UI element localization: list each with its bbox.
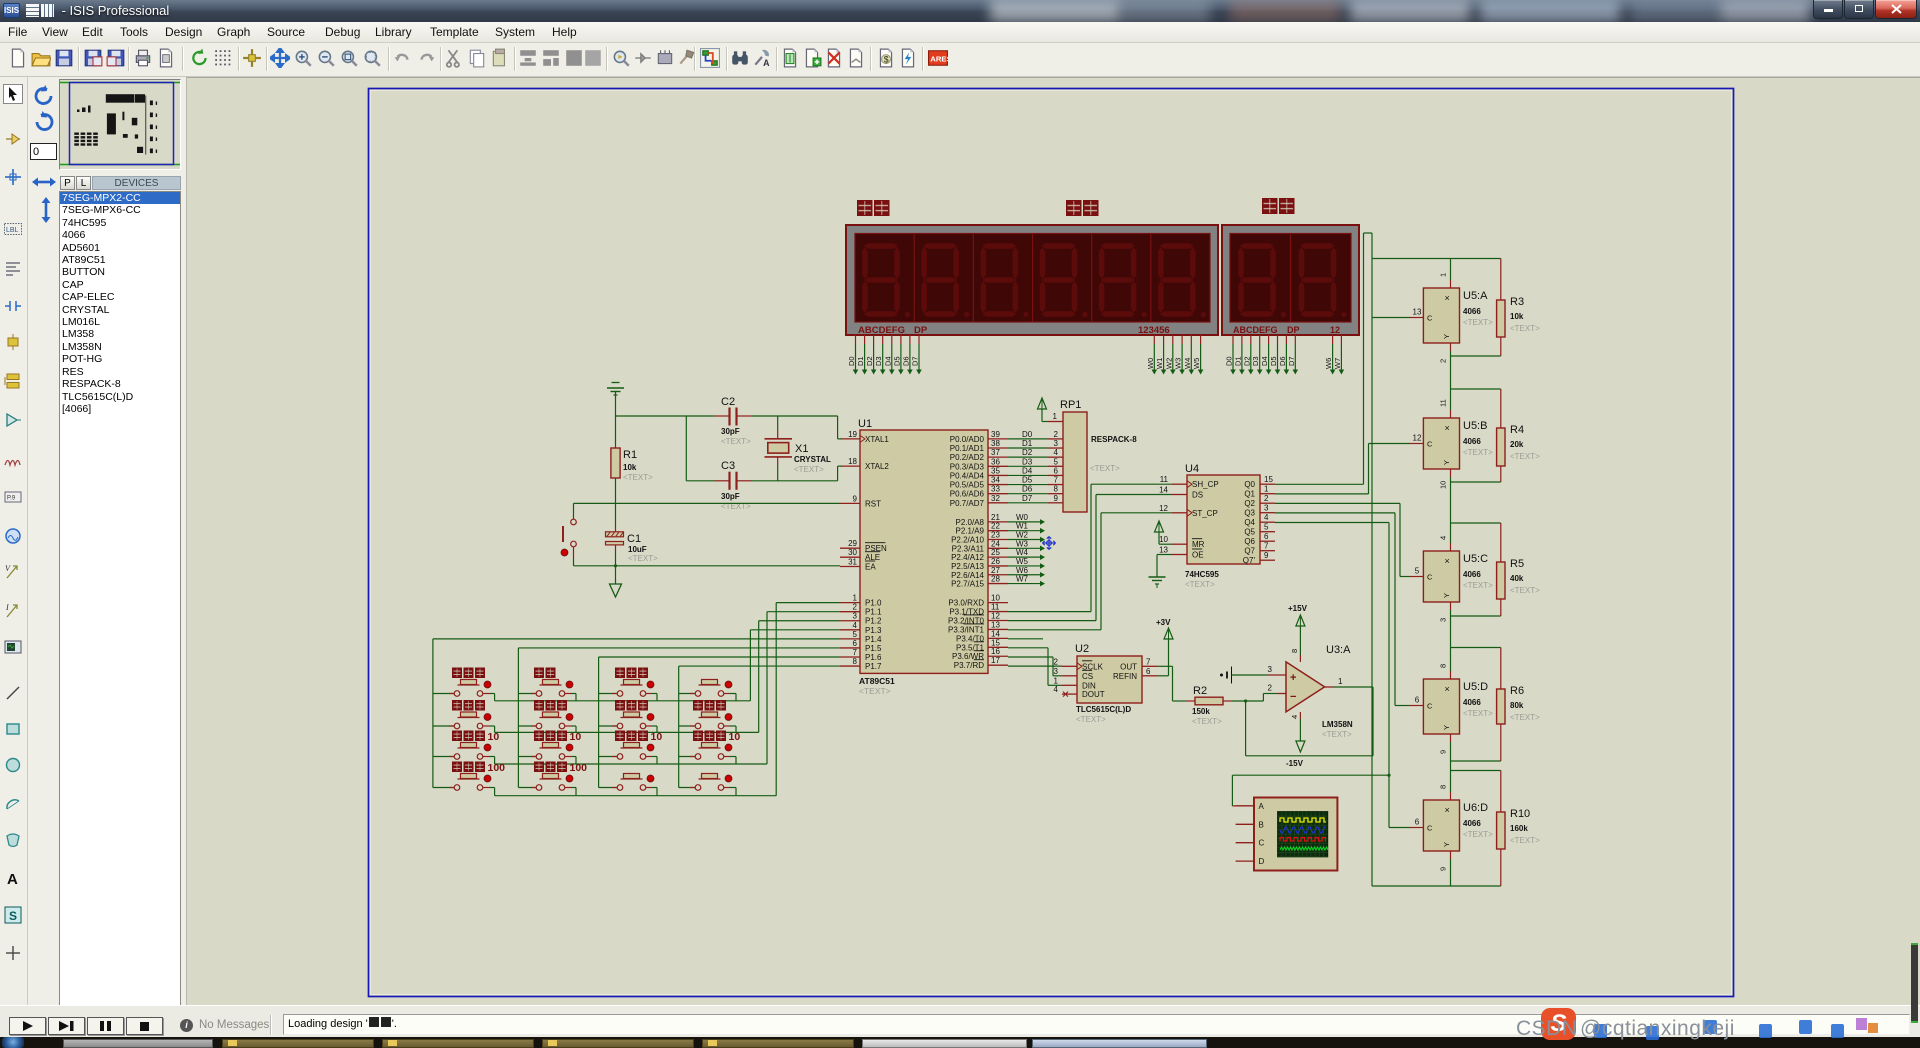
- svg-text:W0: W0: [1146, 358, 1155, 369]
- svg-text:4: 4: [853, 621, 858, 630]
- resistor R6 80k: [1500, 648, 1502, 690]
- power arrow to U4 MR: [1155, 521, 1164, 532]
- svg-text:<TEXT>: <TEXT>: [1090, 464, 1120, 473]
- svg-text:25: 25: [991, 548, 1000, 557]
- U2 pins: [1062, 665, 1077, 667]
- wire C3 to XTAL2: [751, 480, 838, 482]
- svg-text:X1: X1: [795, 443, 808, 455]
- wire U5:A to next stage: [1450, 356, 1452, 389]
- svg-text:1: 1: [1053, 412, 1058, 421]
- svg-text:D7: D7: [910, 356, 919, 366]
- svg-text:8: 8: [1439, 664, 1448, 668]
- push button row2 col4: [699, 717, 721, 719]
- push button row1 col1: [458, 684, 480, 686]
- svg-text:3: 3: [1054, 439, 1059, 448]
- P1 port wires to button matrix: [776, 602, 840, 604]
- 2-digit 7-segment display DS2 (7SEG-MPX2-CC): [1222, 225, 1359, 335]
- display DS1 digit select pins W0-W5: [1153, 335, 1155, 344]
- svg-text:U2: U2: [1075, 643, 1089, 655]
- svg-text:17: 17: [991, 656, 1000, 665]
- svg-text:10: 10: [570, 731, 582, 743]
- svg-text:P2.1/A9: P2.1/A9: [956, 527, 985, 536]
- svg-text:ST_CP: ST_CP: [1192, 509, 1218, 518]
- svg-text:12: 12: [991, 611, 1000, 620]
- svg-text:22: 22: [991, 522, 1000, 531]
- svg-text:D3: D3: [874, 356, 883, 366]
- label 波形 (waveform): [857, 200, 890, 216]
- svg-text:ABCDEFG: ABCDEFG: [858, 325, 905, 336]
- svg-text:20k: 20k: [1510, 440, 1524, 449]
- svg-text:Q7: Q7: [1244, 547, 1255, 556]
- wire RST: [574, 502, 841, 504]
- svg-text:<TEXT>: <TEXT>: [1463, 318, 1493, 327]
- 6-digit 7-segment display DS1 (7SEG-MPX6-CC): [846, 225, 1218, 335]
- svg-text:D4: D4: [883, 356, 892, 366]
- svg-text:W3: W3: [1016, 539, 1029, 548]
- svg-text:40k: 40k: [1510, 574, 1524, 583]
- svg-text:9: 9: [1264, 551, 1269, 560]
- svg-text:34: 34: [991, 476, 1000, 485]
- svg-text:C: C: [1427, 440, 1433, 449]
- svg-text:U5:A: U5:A: [1463, 290, 1488, 302]
- svg-text:XTAL2: XTAL2: [865, 462, 889, 471]
- svg-text:×: ×: [1445, 423, 1450, 433]
- svg-text:W2: W2: [1016, 531, 1029, 540]
- svg-text:W5: W5: [1016, 557, 1029, 566]
- svg-text:4: 4: [1264, 513, 1269, 522]
- svg-text:15: 15: [1264, 475, 1273, 484]
- svg-text:D6: D6: [1278, 356, 1287, 366]
- svg-text:D4: D4: [1022, 466, 1033, 475]
- svg-text:B: B: [1259, 820, 1264, 829]
- svg-text:C: C: [1427, 702, 1433, 711]
- svg-text:8: 8: [1290, 649, 1299, 653]
- svg-text:18: 18: [848, 457, 857, 466]
- svg-text:+: +: [1290, 672, 1296, 684]
- svg-text:39: 39: [991, 430, 1000, 439]
- svg-text:CRYSTAL: CRYSTAL: [794, 455, 831, 464]
- svg-text:33: 33: [991, 485, 1000, 494]
- waveform trace D green triangle: [1280, 847, 1328, 850]
- wire U4 Q4 to U6:D control: [1275, 522, 1389, 524]
- sheet border: [369, 89, 1734, 997]
- U1 right pins: [988, 438, 1008, 440]
- svg-text:27: 27: [991, 566, 1000, 575]
- svg-text:P1.6: P1.6: [865, 653, 882, 662]
- svg-text:Q4: Q4: [1244, 518, 1255, 527]
- svg-text:10: 10: [1439, 481, 1448, 489]
- resistor R10 160k: [1500, 771, 1502, 813]
- svg-text:D3: D3: [1251, 356, 1260, 366]
- analog switch U5:B 4066: [1451, 388, 1501, 390]
- ground arrow below C1: [615, 566, 617, 584]
- svg-text:10k: 10k: [623, 463, 637, 472]
- svg-text:D2: D2: [1022, 448, 1033, 457]
- DAC U2 TLC5615C(L)D: [1077, 656, 1142, 703]
- svg-text:W7: W7: [1333, 358, 1342, 369]
- svg-text:W4: W4: [1183, 358, 1192, 369]
- svg-text:P0.7/AD7: P0.7/AD7: [950, 499, 985, 508]
- svg-text:<TEXT>: <TEXT>: [1463, 448, 1493, 457]
- svg-text:24: 24: [991, 539, 1000, 548]
- svg-text:5: 5: [1415, 567, 1420, 576]
- push button (reset): [573, 503, 575, 519]
- button label row3 col1: [452, 731, 485, 742]
- svg-text:10: 10: [651, 731, 663, 743]
- svg-text:10uF: 10uF: [628, 545, 647, 554]
- resistor pack RP1 RESPACK-8: [1063, 412, 1087, 512]
- resistor R1 10k: [611, 448, 620, 478]
- resistor R2 150k: [1186, 700, 1195, 702]
- wire P3.5 to U2 DIN: [1008, 647, 1048, 649]
- svg-text:3: 3: [1054, 667, 1059, 676]
- svg-text:<TEXT>: <TEXT>: [1463, 581, 1493, 590]
- ground for U4 OE: [1157, 554, 1172, 556]
- svg-text:RST: RST: [865, 499, 881, 508]
- svg-text:7: 7: [1264, 542, 1269, 551]
- op-amp U3:A LM358N: [1286, 662, 1325, 712]
- svg-text:4: 4: [1290, 715, 1299, 719]
- U4 left pins: [1172, 483, 1187, 485]
- svg-text:6: 6: [1146, 667, 1151, 676]
- svg-text:I: I: [5, 603, 9, 612]
- svg-text:D7: D7: [1022, 494, 1033, 503]
- svg-text:R1: R1: [623, 449, 637, 461]
- svg-text:4066: 4066: [1463, 698, 1481, 707]
- svg-text:2: 2: [1439, 359, 1448, 363]
- power arrow for RP1 pin1: [1038, 398, 1047, 409]
- svg-text:W1: W1: [1016, 522, 1029, 531]
- svg-text:9: 9: [1439, 750, 1448, 754]
- capacitor C2 30pF: [728, 408, 730, 426]
- svg-text:D5: D5: [1269, 356, 1278, 366]
- svg-text:29: 29: [848, 539, 857, 548]
- svg-text:W5: W5: [1192, 358, 1201, 369]
- button matrix row bus wires: [495, 700, 751, 702]
- svg-text:OE: OE: [1192, 551, 1204, 560]
- svg-text:+3V: +3V: [1156, 618, 1171, 627]
- svg-text:1: 1: [1338, 677, 1343, 686]
- svg-text:Q2: Q2: [1244, 499, 1255, 508]
- svg-text:SH_CP: SH_CP: [1192, 480, 1219, 489]
- svg-text:A: A: [1259, 802, 1265, 811]
- svg-text:D3: D3: [1022, 457, 1033, 466]
- svg-text:W6: W6: [1016, 566, 1029, 575]
- svg-text:C: C: [1427, 573, 1433, 582]
- push button row4 col2: [540, 778, 562, 780]
- svg-text:14: 14: [1159, 486, 1168, 495]
- label 振幅 (amplitude): [1262, 198, 1295, 214]
- svg-text:<TEXT>: <TEXT>: [1076, 715, 1106, 724]
- svg-text:D2: D2: [865, 356, 874, 366]
- svg-text:C: C: [1259, 839, 1265, 848]
- resistor R4 20k: [1500, 389, 1502, 428]
- svg-text:ARES: ARES: [930, 54, 948, 63]
- U4 right pins Q0-Q7': [1260, 483, 1275, 485]
- push button row4 col1: [458, 778, 480, 780]
- U2 DOUT unconnected marker: [1063, 692, 1068, 697]
- button label row3 col3: [615, 731, 648, 742]
- svg-text:<TEXT>: <TEXT>: [1510, 713, 1540, 722]
- svg-text:<TEXT>: <TEXT>: [794, 465, 824, 474]
- push button row2 col3: [621, 717, 643, 719]
- svg-text:U3:A: U3:A: [1326, 644, 1351, 656]
- svg-text:P2.6/A14: P2.6/A14: [951, 571, 984, 580]
- svg-text:16: 16: [991, 647, 1000, 656]
- svg-text:10: 10: [729, 731, 741, 743]
- svg-text:<TEXT>: <TEXT>: [628, 554, 658, 563]
- button label row3 col2: [534, 731, 567, 742]
- cursor crosshair marker: [1043, 537, 1056, 550]
- canvas sunken edges: [186, 77, 1920, 79]
- vertical bus wire right of displays: [1371, 233, 1373, 886]
- svg-text:U4: U4: [1185, 463, 1199, 475]
- wire U4 Q0 to U5:A control: [1275, 483, 1364, 485]
- svg-text:<TEXT>: <TEXT>: [1322, 730, 1352, 739]
- svg-text:MR: MR: [1192, 540, 1205, 549]
- svg-text:R4: R4: [1510, 424, 1524, 436]
- oscilloscope screen with waveforms: [1278, 812, 1328, 857]
- svg-text:D7: D7: [1287, 356, 1296, 366]
- svg-text:P1.0: P1.0: [865, 599, 882, 608]
- svg-text:D0: D0: [1225, 356, 1234, 366]
- svg-text:30pF: 30pF: [721, 427, 740, 436]
- svg-text:<TEXT>: <TEXT>: [859, 686, 891, 696]
- svg-text:EA: EA: [865, 563, 876, 572]
- shift register U4 74HC595: [1187, 475, 1260, 564]
- push button row4 col4: [699, 778, 721, 780]
- svg-text:P.9: P.9: [7, 496, 16, 502]
- svg-text:7: 7: [853, 648, 858, 657]
- svg-text:Q7': Q7': [1243, 556, 1256, 565]
- waveform trace A yellow square: [1280, 818, 1326, 822]
- button label row1 col2: [534, 668, 556, 679]
- svg-text:U6:D: U6:D: [1463, 802, 1488, 814]
- svg-text:A: A: [7, 871, 18, 888]
- svg-text:DOUT: DOUT: [1082, 690, 1105, 699]
- svg-text:DP: DP: [1287, 325, 1300, 335]
- svg-text:<TEXT>: <TEXT>: [623, 473, 653, 482]
- svg-text:P0.5/AD5: P0.5/AD5: [950, 481, 985, 490]
- svg-text:XTAL1: XTAL1: [865, 435, 889, 444]
- push button row2 col1: [458, 717, 480, 719]
- svg-text:4: 4: [1054, 448, 1059, 457]
- svg-text:2: 2: [1054, 657, 1059, 666]
- svg-text:×: ×: [1445, 556, 1450, 566]
- svg-text:RP1: RP1: [1060, 399, 1081, 411]
- svg-text:Q5: Q5: [1244, 528, 1255, 537]
- svg-text:R6: R6: [1510, 685, 1524, 697]
- svg-text:13: 13: [1159, 546, 1168, 555]
- svg-text:C: C: [1427, 824, 1433, 833]
- svg-text:P2.0/A8: P2.0/A8: [956, 518, 985, 527]
- svg-text:100: 100: [488, 762, 506, 774]
- svg-text:5: 5: [1264, 523, 1269, 532]
- svg-text:S: S: [9, 909, 17, 923]
- svg-text:R2: R2: [1193, 685, 1207, 697]
- svg-text:W4: W4: [1016, 548, 1029, 557]
- wire ground to R1/C2 node: [615, 391, 617, 448]
- waveform trace C red square: [1280, 838, 1326, 842]
- svg-text:D5: D5: [892, 356, 901, 366]
- capacitor C1 10uF electrolytic: [615, 527, 617, 532]
- button label row3 col4: [693, 731, 726, 742]
- svg-text:3: 3: [853, 612, 858, 621]
- svg-text:100: 100: [570, 762, 588, 774]
- svg-text:4: 4: [1439, 536, 1448, 540]
- svg-text:AT89C51: AT89C51: [859, 676, 895, 686]
- svg-text:P0.2/AD2: P0.2/AD2: [950, 453, 985, 462]
- svg-text:Y: Y: [1442, 593, 1451, 598]
- svg-text:4066: 4066: [1463, 437, 1481, 446]
- button label row4 col1: [452, 762, 485, 773]
- capacitor C3 30pF: [686, 480, 714, 482]
- svg-text:-15V: -15V: [1286, 759, 1304, 768]
- svg-text:Q1: Q1: [1244, 490, 1255, 499]
- svg-text:6: 6: [1264, 532, 1269, 541]
- svg-text:1: 1: [853, 594, 858, 603]
- svg-text:D1: D1: [856, 356, 865, 366]
- svg-text:4066: 4066: [1463, 570, 1481, 579]
- svg-text:15: 15: [991, 638, 1000, 647]
- svg-text:P1.3: P1.3: [865, 626, 882, 635]
- svg-text:LBL: LBL: [6, 227, 19, 234]
- resistor R5 40k: [1500, 523, 1502, 562]
- svg-text:P1.5: P1.5: [865, 644, 882, 653]
- svg-text:9: 9: [1439, 867, 1448, 871]
- push button row1 col3: [621, 684, 643, 686]
- svg-text:13: 13: [991, 620, 1000, 629]
- svg-text:<TEXT>: <TEXT>: [1192, 717, 1222, 726]
- wire R2 to op-amp inverting input: [1232, 700, 1263, 702]
- svg-text:P3.3/INT1: P3.3/INT1: [948, 625, 985, 634]
- svg-text:P0.4/AD4: P0.4/AD4: [950, 471, 985, 480]
- analog switch U5:A 4066: [1451, 258, 1501, 260]
- op-amp input pins: [1268, 674, 1286, 676]
- svg-text:37: 37: [991, 448, 1000, 457]
- button label row4 col2: [534, 762, 567, 773]
- svg-text:D0: D0: [847, 356, 856, 366]
- crystal X1: [777, 416, 779, 430]
- button label row2 col4: [693, 700, 726, 711]
- svg-text:12: 12: [1159, 504, 1168, 513]
- -15V supply to op-amp pin 4: [1299, 712, 1301, 719]
- svg-text:1: 1: [1264, 485, 1269, 494]
- svg-text:<TEXT>: <TEXT>: [1185, 580, 1215, 589]
- svg-text:R10: R10: [1510, 808, 1530, 820]
- svg-text:30pF: 30pF: [721, 492, 740, 501]
- svg-text:R3: R3: [1510, 296, 1524, 308]
- svg-text:6: 6: [1054, 466, 1059, 475]
- svg-text:<TEXT>: <TEXT>: [1463, 830, 1493, 839]
- svg-text:TLC5615C(L)D: TLC5615C(L)D: [1076, 705, 1131, 714]
- svg-text:D6: D6: [901, 356, 910, 366]
- wire U4 Q2 to U5:C control: [1275, 502, 1400, 504]
- svg-text:C2: C2: [721, 396, 735, 408]
- svg-text:2: 2: [853, 603, 858, 612]
- svg-text:8: 8: [1439, 785, 1448, 789]
- svg-text:P1.1: P1.1: [865, 608, 882, 617]
- svg-text:D4: D4: [1260, 356, 1269, 366]
- svg-text:+15V: +15V: [1288, 604, 1308, 613]
- svg-text:4066: 4066: [1463, 307, 1481, 316]
- svg-text:6: 6: [1415, 696, 1420, 705]
- svg-text:19: 19: [848, 430, 857, 439]
- svg-text:W6: W6: [1324, 358, 1333, 369]
- svg-text:P2.7/A15: P2.7/A15: [951, 580, 984, 589]
- svg-text:10: 10: [991, 594, 1000, 603]
- svg-text:23: 23: [991, 531, 1000, 540]
- svg-text:11: 11: [1439, 399, 1448, 407]
- svg-text:2: 2: [1268, 684, 1273, 693]
- button label row1 col3: [615, 668, 648, 679]
- button label row2 col2: [534, 700, 567, 711]
- svg-text:DP: DP: [914, 325, 928, 336]
- svg-text:LM358N: LM358N: [1322, 720, 1353, 729]
- button matrix column bus wires: [432, 639, 434, 788]
- svg-text:11: 11: [1160, 475, 1169, 484]
- svg-text:W3: W3: [1174, 358, 1183, 369]
- svg-text:3: 3: [1439, 618, 1448, 622]
- svg-text:8: 8: [1054, 485, 1059, 494]
- svg-text:D1: D1: [1022, 439, 1033, 448]
- svg-text:U5:B: U5:B: [1463, 420, 1487, 432]
- svg-text:<TEXT>: <TEXT>: [1510, 586, 1540, 595]
- U1 left pins: [840, 438, 860, 440]
- canvas background: [186, 77, 1920, 1005]
- svg-text:P0.3/AD3: P0.3/AD3: [950, 462, 985, 471]
- push button row3 col1: [458, 747, 480, 749]
- svg-text:160k: 160k: [1510, 824, 1528, 833]
- svg-text:10: 10: [1159, 535, 1168, 544]
- svg-text:W0: W0: [1016, 513, 1029, 522]
- svg-text:W1: W1: [1155, 358, 1164, 369]
- analog switch U5:C 4066: [1451, 522, 1501, 524]
- svg-text:C: C: [1427, 314, 1433, 323]
- svg-text:U5:D: U5:D: [1463, 681, 1488, 693]
- svg-text:RESPACK-8: RESPACK-8: [1091, 435, 1137, 444]
- svg-text:Q6: Q6: [1244, 537, 1255, 546]
- svg-text:OUT: OUT: [1120, 662, 1137, 671]
- svg-text:ABCDEFG: ABCDEFG: [1233, 325, 1278, 335]
- svg-text:P0.1/AD1: P0.1/AD1: [950, 444, 985, 453]
- svg-text:P3.0/RXD: P3.0/RXD: [948, 599, 984, 608]
- push button row3 col2: [540, 747, 562, 749]
- svg-text:P3.7/RD: P3.7/RD: [954, 661, 984, 670]
- wire EA to ground net: [574, 565, 841, 567]
- svg-text:P1.4: P1.4: [865, 635, 882, 644]
- svg-text:9: 9: [1054, 494, 1059, 503]
- waveform trace B blue sine: [1280, 827, 1326, 833]
- svg-text:3: 3: [1268, 665, 1273, 674]
- svg-text:8: 8: [853, 657, 858, 666]
- svg-text:1: 1: [1439, 273, 1448, 277]
- svg-text:P0.0/AD0: P0.0/AD0: [950, 435, 985, 444]
- svg-text:Q0: Q0: [1244, 480, 1255, 489]
- svg-text:1: 1: [1054, 676, 1059, 685]
- wire P3.2 to U4 DS: [1008, 620, 1096, 622]
- display DS2 segment pins D0-D7: [1232, 335, 1234, 344]
- svg-text:D1: D1: [1233, 356, 1242, 366]
- wire P3.6 to U2 CS: [1008, 656, 1053, 658]
- svg-text:7: 7: [1054, 476, 1059, 485]
- svg-text:36: 36: [991, 457, 1000, 466]
- svg-text:12: 12: [1413, 434, 1422, 443]
- push button row1 col4: [699, 684, 721, 686]
- svg-text:80k: 80k: [1510, 701, 1524, 710]
- svg-text:P2.2/A10: P2.2/A10: [951, 536, 984, 545]
- svg-text:74HC595: 74HC595: [1185, 570, 1219, 579]
